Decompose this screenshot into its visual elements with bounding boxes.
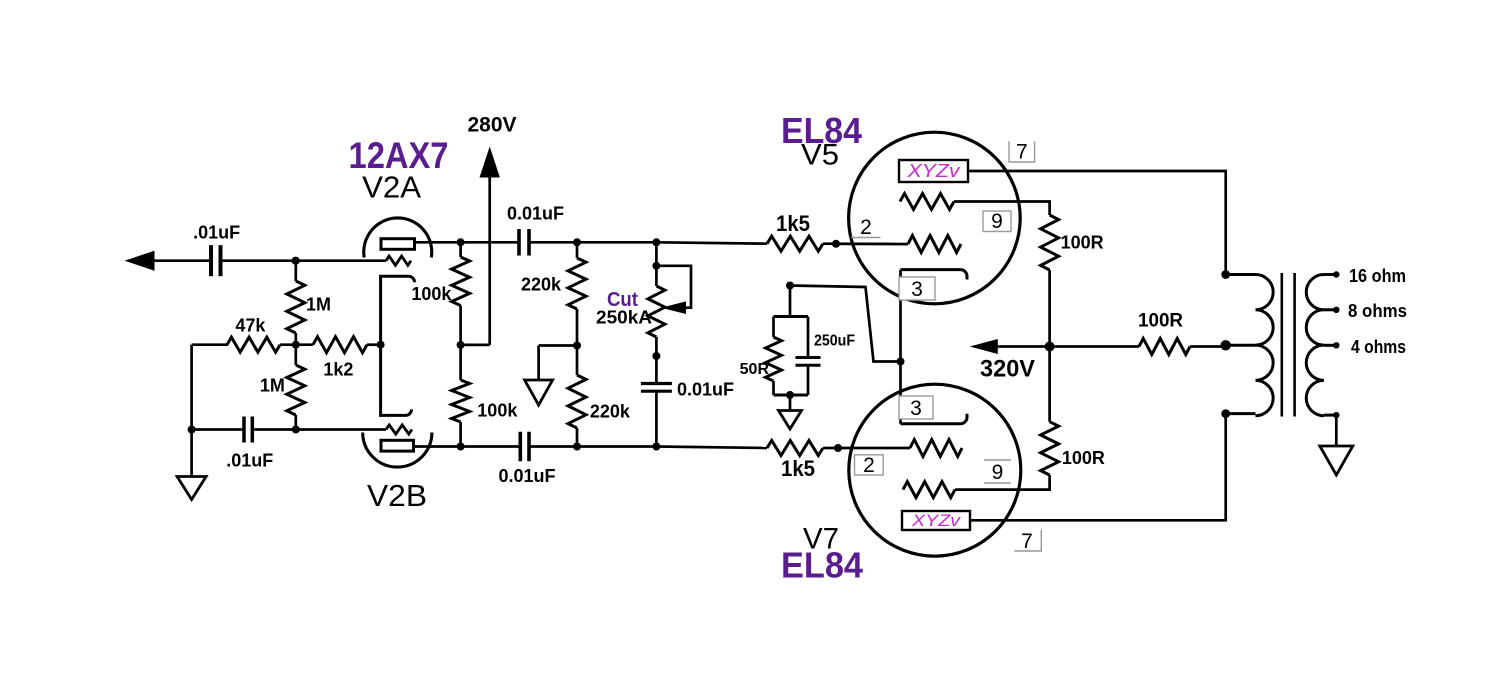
svg-text:XYZv: XYZv	[911, 511, 962, 530]
svg-text:1k2: 1k2	[323, 360, 353, 380]
svg-text:V2B: V2B	[367, 478, 427, 513]
svg-text:1k5: 1k5	[781, 456, 815, 481]
svg-text:250kA: 250kA	[596, 308, 652, 328]
svg-text:1k5: 1k5	[776, 211, 810, 236]
svg-text:0.01uF: 0.01uF	[498, 466, 555, 486]
svg-text:0.01uF: 0.01uF	[677, 380, 734, 400]
svg-text:100R: 100R	[1138, 311, 1183, 332]
svg-text:16 ohm: 16 ohm	[1349, 266, 1406, 286]
svg-text:V2A: V2A	[362, 170, 421, 205]
svg-text:7: 7	[1016, 141, 1028, 164]
svg-text:.01uF: .01uF	[226, 451, 273, 471]
svg-text:2: 2	[863, 454, 875, 477]
svg-text:100R: 100R	[1062, 448, 1105, 468]
svg-text:7: 7	[1021, 530, 1033, 553]
svg-text:1M: 1M	[260, 376, 285, 396]
svg-text:250uF: 250uF	[814, 333, 855, 350]
svg-text:100R: 100R	[1061, 233, 1104, 253]
svg-text:.01uF: .01uF	[193, 223, 240, 243]
svg-text:3: 3	[911, 278, 923, 301]
svg-text:47k: 47k	[235, 316, 266, 336]
svg-text:220k: 220k	[590, 402, 631, 422]
svg-text:EL84: EL84	[781, 545, 863, 586]
svg-text:320V: 320V	[980, 356, 1035, 383]
svg-text:XYZv: XYZv	[906, 161, 960, 181]
svg-text:4 ohms: 4 ohms	[1351, 337, 1406, 357]
svg-text:280V: 280V	[468, 114, 517, 137]
svg-text:3: 3	[910, 397, 922, 420]
svg-text:9: 9	[992, 461, 1004, 484]
svg-text:V5: V5	[801, 139, 839, 172]
svg-text:8 ohms: 8 ohms	[1348, 301, 1407, 321]
svg-text:0.01uF: 0.01uF	[507, 204, 564, 224]
svg-text:9: 9	[991, 210, 1003, 233]
svg-text:2: 2	[860, 216, 872, 239]
svg-text:100k: 100k	[477, 401, 518, 421]
svg-text:1M: 1M	[306, 295, 331, 315]
svg-text:100k: 100k	[411, 284, 452, 304]
svg-text:50R: 50R	[740, 361, 770, 378]
svg-text:220k: 220k	[521, 275, 562, 295]
